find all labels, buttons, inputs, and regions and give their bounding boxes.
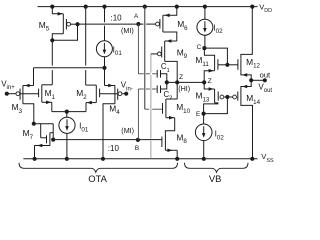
svg-text:OTA: OTA bbox=[88, 173, 107, 183]
svg-text:(MI): (MI) bbox=[121, 26, 134, 35]
svg-text:out: out bbox=[260, 70, 271, 79]
svg-text:Z: Z bbox=[208, 78, 212, 85]
svg-text:B: B bbox=[135, 145, 139, 152]
svg-text:Z: Z bbox=[179, 74, 183, 81]
svg-text::10: :10 bbox=[111, 14, 123, 23]
svg-text:VB: VB bbox=[209, 173, 222, 183]
svg-text::10: :10 bbox=[108, 144, 120, 153]
svg-text:(MI): (MI) bbox=[121, 126, 134, 135]
svg-text:(HI): (HI) bbox=[178, 84, 190, 93]
svg-text:C: C bbox=[197, 44, 202, 51]
svg-text:E: E bbox=[196, 111, 200, 118]
